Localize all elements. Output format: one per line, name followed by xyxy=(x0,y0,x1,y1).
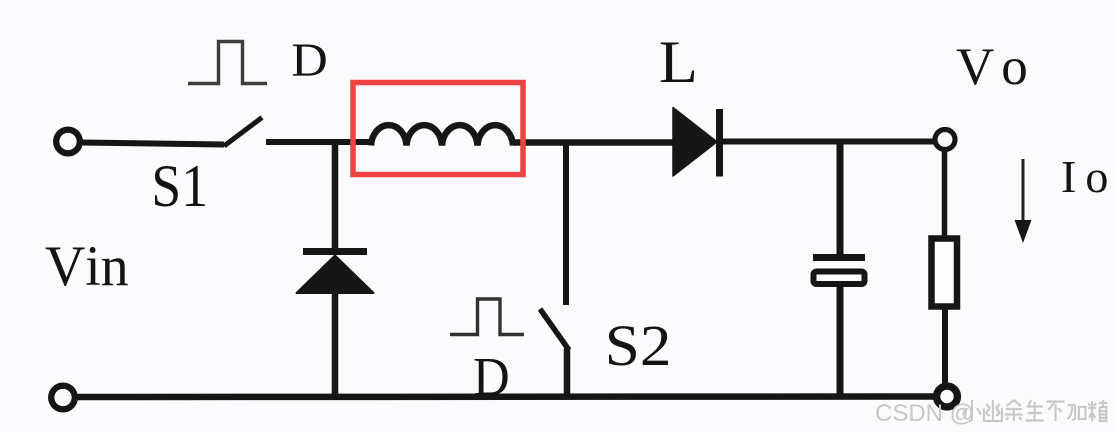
svg-text:D: D xyxy=(473,347,510,407)
svg-text:L: L xyxy=(659,30,698,96)
svg-text:CSDN @: CSDN @ xyxy=(875,400,974,427)
svg-text:S1: S1 xyxy=(151,153,208,219)
svg-text:Vo: Vo xyxy=(956,38,1035,96)
svg-text:Io: Io xyxy=(1061,151,1116,202)
svg-text:S2: S2 xyxy=(605,314,672,378)
svg-text:Vin: Vin xyxy=(45,235,129,298)
svg-text:D: D xyxy=(291,33,328,86)
